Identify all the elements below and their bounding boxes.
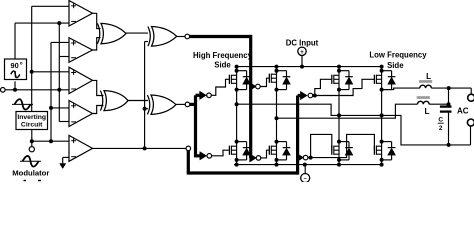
svg-text:Modulator: Modulator <box>12 169 49 178</box>
svg-text:AC: AC <box>457 106 469 115</box>
svg-text:High Frequency: High Frequency <box>193 51 253 60</box>
svg-text:L: L <box>426 72 431 81</box>
svg-text:DC Input: DC Input <box>286 38 319 47</box>
svg-text:o: o <box>20 61 23 66</box>
svg-text:L: L <box>424 107 429 116</box>
svg-text:Low Frequency: Low Frequency <box>369 51 427 60</box>
svg-text:Side: Side <box>387 61 404 70</box>
svg-text:C: C <box>438 117 443 124</box>
svg-text:Side: Side <box>214 60 231 69</box>
svg-text:+: + <box>300 50 304 56</box>
svg-text:−: − <box>304 177 307 182</box>
svg-text:90: 90 <box>10 61 18 70</box>
svg-text:2: 2 <box>439 125 443 132</box>
svg-text:Circuit: Circuit <box>21 122 43 129</box>
svg-text:Inverting: Inverting <box>17 114 46 121</box>
